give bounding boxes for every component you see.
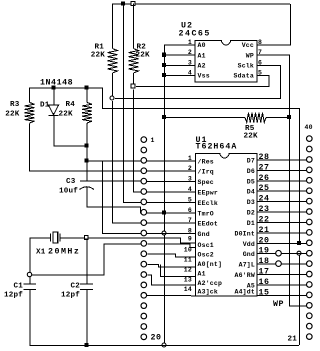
wire D1 anode rail [29, 87, 87, 89]
wire C1 bottom [29, 290, 31, 346]
connector right pin row 15 [307, 282, 313, 288]
svg-text:A0: A0 [198, 42, 206, 49]
resistor R4 [82, 103, 92, 124]
junction gnd bus at TmrO row [163, 211, 166, 214]
connector right pin row 11 [307, 240, 313, 246]
svg-text:C2: C2 [70, 283, 80, 291]
svg-text:5: 5 [188, 196, 192, 203]
svg-text:22K: 22K [136, 52, 151, 60]
wire U2 pin 4 [164, 75, 195, 77]
connector left pin row 1 [141, 137, 147, 143]
node gnd bus at bottom rail [162, 343, 166, 347]
svg-text:22K: 22K [91, 52, 106, 60]
junction C2 at rail [85, 344, 88, 347]
junction at R4 top [85, 86, 88, 89]
wire R2 top [133, 4, 135, 49]
capacitor C2 [80, 283, 93, 285]
svg-text:A3]ck: A3]ck [198, 289, 219, 296]
svg-text:19: 19 [259, 247, 270, 256]
wire gnd vertical from connector Gnd row [299, 253, 301, 345]
svg-text:6: 6 [258, 59, 262, 66]
junction gnd bus U2 pin3 [163, 63, 166, 66]
connector left pin row 10 [141, 230, 147, 236]
wire U1 pin 28 to connector [257, 159, 306, 161]
svg-text:12pf: 12pf [4, 292, 23, 300]
svg-text:3: 3 [188, 176, 192, 183]
svg-text:6: 6 [188, 207, 192, 214]
connector left pin row 5 [141, 178, 147, 184]
connector right pin row 10 [307, 230, 313, 236]
node gnd bus at connector pin 10 row [162, 231, 166, 235]
wire U1 pin 16 to connector [257, 284, 306, 286]
connector left pin row 13 [141, 261, 147, 267]
svg-text:5: 5 [258, 70, 262, 77]
wire gnd bus [164, 45, 166, 346]
connector left pin row 3 [141, 158, 147, 164]
resistor R2 [129, 49, 139, 74]
svg-text:4: 4 [188, 70, 192, 77]
capacitor C1 [24, 283, 37, 285]
svg-text:12: 12 [184, 267, 192, 274]
wire Sdata bus B3 down to connector pin 6 row [134, 90, 142, 193]
wire U1 pin 23 to connector [257, 211, 306, 213]
connector right pin row 13 [307, 261, 313, 267]
svg-text:X1: X1 [36, 249, 46, 257]
wire U1 pin 18 to connector [257, 263, 306, 265]
wire R4 top stub [86, 88, 88, 103]
connector left pin row 2 [141, 147, 147, 153]
wire R5 right [266, 117, 289, 119]
svg-text:16: 16 [259, 278, 270, 287]
svg-text:R1: R1 [94, 44, 104, 52]
svg-text:A4]dt: A4]dt [234, 289, 255, 296]
wire X1 left [30, 238, 51, 284]
wire R1 top [112, 4, 114, 49]
connector left pin row 19 [141, 324, 147, 330]
connector right pin row 19 [307, 323, 313, 329]
svg-text:4: 4 [188, 186, 192, 193]
connector left pin row 12 [141, 251, 147, 257]
svg-text:D5: D5 [247, 178, 255, 185]
wire X1 right to Osc1 [89, 238, 196, 243]
wire Vdd net horizontal [102, 108, 299, 110]
wire U1 pin 26 to connector [257, 180, 306, 182]
svg-text:Osc1: Osc1 [198, 242, 214, 249]
svg-text:A6'RW: A6'RW [234, 272, 255, 279]
node test point on Gnd row [276, 250, 282, 256]
svg-text:A1: A1 [198, 52, 206, 59]
wire Vcc bus B2 down to connector pin 7 row [124, 4, 142, 202]
svg-text:C3: C3 [66, 178, 76, 186]
junction gnd bus U2 pin4 [163, 74, 166, 77]
wire R3 top stub [29, 88, 31, 103]
svg-text:R3: R3 [10, 101, 20, 109]
node gnd tap at connector row 19 [297, 251, 301, 255]
wire U2 pin 2 [164, 54, 195, 56]
svg-text:20: 20 [151, 333, 162, 342]
wire connector to U1 pin 10 jog [147, 254, 196, 257]
connector right pin row 6 [307, 188, 313, 194]
resistor R5 22K [245, 113, 266, 123]
connector right pin row 12 [307, 250, 313, 256]
wire U1 pin 24 to connector [257, 201, 306, 203]
node Sclk junction on B1 [110, 96, 114, 100]
wire Sclk line [115, 65, 281, 98]
svg-text:EEdot: EEdot [198, 221, 219, 228]
junction D1 cathode at R4 line [85, 144, 88, 147]
connector left pin row 7 [141, 199, 147, 205]
connector right pin row 7 [307, 198, 313, 204]
svg-text:Spec: Spec [198, 179, 214, 186]
connector right pin row 8 [307, 209, 313, 215]
wire U1 pin 19 to connector [257, 253, 306, 255]
svg-text:21: 21 [287, 336, 297, 344]
resistor R3 [25, 103, 35, 124]
connector right pin row 14 [307, 271, 313, 277]
svg-text:8: 8 [258, 39, 262, 46]
svg-text:22: 22 [259, 215, 270, 224]
wire connector to U1 pin 3 [147, 181, 196, 183]
connector left pin row 4 [141, 168, 147, 174]
connector right pin row 5 [307, 177, 313, 183]
svg-text:A2: A2 [198, 63, 206, 70]
connector left pin row 17 [141, 303, 147, 309]
svg-text:8: 8 [188, 228, 192, 235]
svg-text:A1: A1 [198, 271, 206, 278]
connector left pin row 6 [141, 189, 147, 195]
svg-text:1N4148: 1N4148 [40, 79, 73, 88]
connector left pin row 14 [141, 272, 147, 278]
svg-text:A7]L: A7]L [239, 262, 255, 269]
connector right pin row 18 [307, 313, 313, 319]
connector left pin row 11 [141, 241, 147, 247]
svg-text:7: 7 [188, 217, 192, 224]
wire connector to U1 pin 4 [147, 191, 196, 193]
connector left pin row 9 [141, 220, 147, 226]
wire connector to U1 pin 2 [147, 170, 196, 172]
wire ground rail [30, 345, 300, 347]
connector left pin row 8 [141, 209, 147, 215]
wire U1 pin 27 to connector [257, 169, 306, 171]
wire R3 bottom to connector pin 4 row [30, 124, 142, 172]
svg-text:D0Int: D0Int [234, 230, 255, 237]
wire R4 net to connector pin 3 [87, 160, 141, 162]
svg-text:Gnd: Gnd [198, 231, 210, 238]
svg-text:22K: 22K [5, 111, 20, 119]
svg-text:D4: D4 [247, 189, 255, 196]
wire Osc1 feed from C1/X1 junction [32, 244, 141, 275]
svg-text:Sdata: Sdata [233, 73, 254, 80]
wire D1 cathode [54, 115, 87, 146]
connector right pin row 2 [307, 146, 313, 152]
wire connector to U1 pin 11 jog [147, 265, 196, 267]
wire C2 top from X1 square [86, 239, 88, 284]
node Sdata junction square on B3 [131, 84, 135, 88]
wire U1 pin 15 to connector [257, 294, 306, 296]
svg-text:Vss: Vss [198, 73, 210, 80]
junction gnd bus U2 pin2 [163, 53, 166, 56]
svg-text:/Irq: /Irq [198, 169, 214, 176]
wire U1 pin 17 to connector [257, 274, 306, 276]
wire C3 bottom [87, 188, 141, 213]
svg-text:EEclk: EEclk [198, 200, 219, 207]
svg-text:28: 28 [259, 153, 270, 162]
ic U2 body [195, 41, 257, 83]
svg-text:R2: R2 [137, 44, 147, 52]
svg-text:Osc2: Osc2 [198, 252, 214, 259]
connector left pin row 16 [141, 293, 147, 299]
connector right pin row 1 [307, 136, 313, 142]
wire Sclk bus B1 down to connector pin 9 row [113, 101, 142, 223]
node test point on row 18 [276, 261, 282, 267]
svg-text:2: 2 [188, 165, 192, 172]
svg-text:3: 3 [188, 59, 192, 66]
wire connector to U1 pin 6 [147, 212, 196, 214]
svg-text:D2: D2 [247, 210, 255, 217]
wire WP to connector [289, 305, 306, 307]
junction (hollow square) on Vcc rail at B3 [131, 2, 135, 6]
svg-text:WP: WP [273, 300, 284, 309]
svg-text:Vdd: Vdd [243, 241, 255, 248]
svg-text:23: 23 [259, 205, 270, 214]
svg-text:1: 1 [188, 155, 192, 162]
svg-text:18: 18 [259, 257, 270, 266]
wire Vdd net vertical down [299, 108, 301, 243]
svg-text:Vcc: Vcc [242, 42, 254, 49]
svg-text:/Res: /Res [198, 158, 214, 165]
capacitor C3 bottom plate (curved) [80, 187, 95, 190]
svg-text:22K: 22K [59, 111, 74, 119]
svg-text:15: 15 [259, 288, 270, 297]
wire Vcc rail right corner down to U2 pin 8 [258, 4, 291, 45]
wire R5 left [164, 117, 245, 119]
svg-text:EEpwr: EEpwr [198, 190, 219, 197]
svg-text:24C65: 24C65 [179, 30, 211, 39]
svg-text:26: 26 [259, 174, 270, 183]
wire U1 pin 20 to connector [257, 242, 306, 244]
connector left pin row 15 [141, 282, 147, 288]
connector right pin row 9 [307, 219, 313, 225]
svg-text:9: 9 [188, 236, 192, 243]
svg-text:20MHz: 20MHz [48, 248, 80, 257]
wire connector to U1 pin 13 jog [147, 275, 196, 285]
wire C3 top plate to connector pin 5 row [94, 180, 141, 182]
svg-text:Gnd: Gnd [243, 251, 255, 258]
junction gnd bus at R5 [163, 116, 166, 119]
wire branch to U1 pin 12 [161, 265, 197, 277]
wire C2 bottom [86, 290, 88, 346]
junction at D1 top [52, 86, 55, 89]
crystal X1 [50, 233, 52, 241]
wire U2 pin 3 [164, 64, 195, 66]
capacitor C3 top plate [80, 180, 94, 182]
connector left pin row 18 [141, 313, 147, 319]
ic U1 body [196, 154, 258, 297]
svg-text:A0[nt]: A0[nt] [198, 261, 223, 268]
svg-text:D1: D1 [40, 102, 50, 110]
svg-text:D7: D7 [247, 157, 255, 164]
svg-text:D3: D3 [247, 199, 255, 206]
connector left pin row 20 [141, 334, 147, 340]
diode D1 [48, 105, 58, 115]
wire U2 pin 1 [164, 44, 195, 46]
wire R4 top to corner [87, 88, 103, 109]
wire branch down to connector pin 10 row [103, 161, 142, 234]
svg-text:17: 17 [259, 268, 270, 277]
svg-text:1: 1 [151, 137, 155, 144]
wire connector to U1 pin 9 (c11) [147, 244, 196, 247]
svg-text:25: 25 [259, 184, 270, 193]
svg-text:10uf: 10uf [59, 188, 78, 196]
svg-text:40: 40 [305, 124, 313, 131]
connector right pin row 20 [307, 334, 313, 340]
wire U1 pin 25 to connector [257, 190, 306, 192]
wire connector to U1 pin 14 [147, 294, 196, 297]
svg-text:1: 1 [188, 39, 192, 46]
svg-text:11: 11 [184, 257, 192, 264]
node junction X1/C1 [27, 272, 31, 276]
junction R5 right on WP vertical [288, 116, 291, 119]
node X1 right terminal square [84, 236, 88, 240]
wire R4 bottom [86, 123, 88, 181]
svg-text:A2'ccp: A2'ccp [198, 280, 223, 287]
junction on Vcc rail at B2 [122, 2, 125, 5]
svg-text:14: 14 [184, 286, 192, 293]
wire U1 pin 22 to connector [257, 221, 306, 223]
wire connector to U1 pin 8 [147, 233, 196, 235]
svg-text:20: 20 [259, 236, 270, 245]
svg-text:Sclk: Sclk [238, 63, 254, 70]
svg-text:13: 13 [184, 277, 192, 284]
wire R2 bottom [133, 73, 135, 84]
connector right pin row 3 [307, 157, 313, 163]
junction Vdd net at connector row 20 [298, 241, 301, 244]
svg-text:TmrO: TmrO [198, 210, 214, 217]
svg-text:22K: 22K [244, 133, 259, 141]
wire Sdata line [136, 76, 269, 87]
wire R1 bottom [112, 73, 114, 96]
wire connector to U1 pin 7 [147, 222, 196, 224]
svg-text:C1: C1 [13, 283, 23, 291]
wire U2 pin 7 WP [258, 55, 290, 306]
svg-text:T62H64A: T62H64A [196, 143, 238, 152]
wire D1 anode stub [53, 88, 55, 106]
svg-text:2: 2 [188, 49, 192, 56]
svg-text:D6: D6 [247, 168, 255, 175]
wire connector to U1 pin 1 [147, 160, 196, 162]
connector right pin row 4 [307, 167, 313, 173]
wire connector to U1 pin 5 [147, 201, 196, 203]
svg-text:27: 27 [259, 163, 270, 172]
connector right pin row 16 [307, 292, 313, 298]
svg-text:WP: WP [246, 52, 254, 59]
resistor R1 [108, 49, 118, 74]
connector right pin row 17 [307, 303, 313, 309]
wire Vcc top rail [112, 3, 290, 5]
svg-text:D1: D1 [247, 220, 255, 227]
wire X1 right [60, 237, 84, 239]
svg-text:R4: R4 [66, 101, 76, 109]
svg-text:24: 24 [259, 195, 270, 204]
wire U1 pin 21 to connector [257, 232, 306, 234]
svg-text:10: 10 [184, 247, 192, 254]
svg-text:21: 21 [259, 226, 270, 235]
svg-text:12pf: 12pf [61, 292, 80, 300]
junction R4 net to connector pin 3 row [85, 159, 88, 162]
